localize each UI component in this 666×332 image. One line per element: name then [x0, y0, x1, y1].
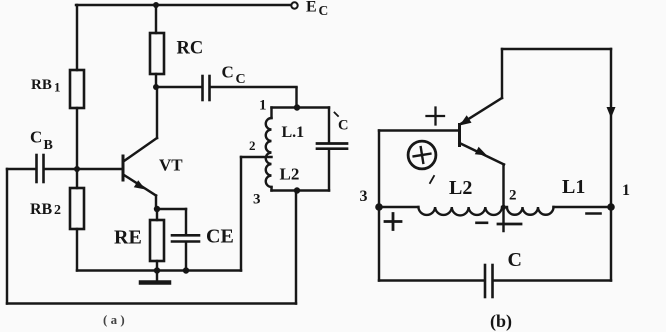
svg-text:B: B	[44, 138, 53, 153]
svg-text:C: C	[508, 249, 522, 271]
svg-text:L2: L2	[449, 177, 472, 199]
svg-text:RB: RB	[31, 77, 52, 93]
svg-text:(b): (b)	[490, 311, 512, 332]
svg-text:1: 1	[259, 98, 267, 114]
svg-text:2: 2	[54, 203, 61, 218]
svg-text:1: 1	[54, 80, 61, 95]
svg-text:3: 3	[360, 188, 368, 205]
svg-text:2: 2	[249, 138, 256, 153]
svg-text:VT: VT	[159, 156, 183, 175]
svg-text:C: C	[338, 118, 348, 134]
svg-text:L1: L1	[562, 176, 585, 198]
svg-text:1: 1	[622, 182, 630, 199]
svg-text:C: C	[236, 72, 246, 87]
svg-text:L2: L2	[280, 165, 300, 184]
svg-text:C: C	[319, 3, 329, 18]
svg-text:C: C	[30, 128, 42, 147]
svg-text:RC: RC	[177, 39, 204, 59]
svg-text:CE: CE	[206, 226, 234, 248]
svg-text:RE: RE	[114, 227, 142, 249]
svg-text:L.1: L.1	[282, 124, 305, 141]
svg-text:RB: RB	[30, 201, 53, 218]
svg-text:C: C	[222, 63, 234, 82]
svg-text:( a ): ( a )	[103, 312, 125, 327]
svg-text:2: 2	[509, 188, 517, 204]
svg-text:3: 3	[253, 192, 261, 208]
svg-text:E: E	[306, 0, 317, 16]
